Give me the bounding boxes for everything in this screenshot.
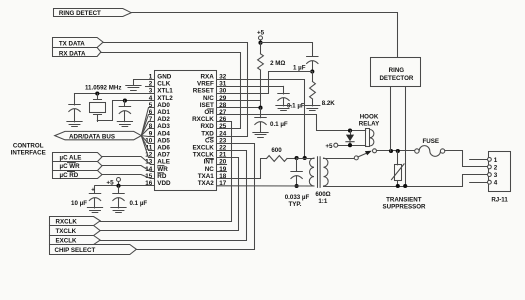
svg-text:VDD: VDD bbox=[157, 180, 171, 187]
svg-text:1: 1 bbox=[494, 157, 498, 164]
svg-text:RXD: RXD bbox=[201, 123, 215, 130]
svg-text:8: 8 bbox=[149, 123, 153, 130]
wire 600 ohm to transformer primary bbox=[287, 158, 297, 160]
svg-text:3: 3 bbox=[494, 172, 498, 179]
wire RX DATA to RXD pin 25 bbox=[101, 53, 241, 129]
svg-text:RJ-11: RJ-11 bbox=[491, 197, 508, 204]
connector J1 RJ-11 bbox=[489, 152, 511, 192]
pin 2 CLK stub bbox=[146, 86, 155, 88]
svg-text:HOOK: HOOK bbox=[360, 113, 379, 120]
svg-text:INT: INT bbox=[204, 159, 214, 166]
wire uC RD to RD pin 15 bbox=[102, 175, 154, 179]
RJ-11 pin 3 contact bbox=[488, 173, 492, 177]
node diode bottom junction bbox=[348, 143, 352, 147]
bus fan wire to AD7 pin 12 bbox=[141, 136, 154, 158]
wire ring detector output left to tip line bbox=[390, 87, 392, 151]
bus fan wire to AD4 pin 9 bbox=[141, 135, 154, 138]
svg-text:TXCLK: TXCLK bbox=[56, 228, 77, 235]
node relay-diode top junction bbox=[348, 129, 352, 133]
resistor 8.2K bbox=[312, 72, 314, 82]
bus fan wire to AD6 pin 11 bbox=[141, 136, 154, 151]
svg-text:0.1 µF: 0.1 µF bbox=[270, 121, 288, 128]
svg-text:AD1: AD1 bbox=[157, 109, 170, 116]
wire secondary top to hook switch bbox=[324, 158, 355, 160]
net tag CHIP SELECT bbox=[50, 245, 137, 255]
svg-text:1:1: 1:1 bbox=[318, 198, 328, 205]
svg-text:VREF: VREF bbox=[197, 81, 214, 88]
capacitor C2 (right crystal cap) bbox=[124, 101, 126, 107]
svg-text:ALE: ALE bbox=[157, 159, 170, 166]
wire secondary bottom (ring line) bbox=[324, 186, 463, 188]
wire uC WR to WR pin 14 bbox=[102, 166, 154, 172]
node suppressor top junction bbox=[396, 149, 400, 153]
wire RING DETECT to ring detector input bbox=[131, 13, 397, 58]
svg-text:INTERFACE: INTERFACE bbox=[11, 149, 46, 156]
bus fan wire to AD1 pin 6 bbox=[141, 115, 154, 136]
svg-text:+: + bbox=[91, 188, 95, 194]
svg-text:µC WR: µC WR bbox=[60, 163, 81, 170]
ground for C1 bbox=[67, 122, 82, 127]
wire TXA2 pin 17 to transformer primary bottom bbox=[217, 185, 314, 187]
pin 29 N/C wire stub bbox=[217, 100, 261, 102]
svg-text:AD6: AD6 bbox=[157, 145, 170, 152]
ground for VREF cap bbox=[276, 106, 291, 111]
svg-text:TXD: TXD bbox=[201, 130, 214, 137]
diode D1 flyback bbox=[350, 131, 352, 135]
capacitor 0.1 uF at VDD bbox=[118, 186, 120, 194]
op RING DETECTOR block U2 bbox=[371, 58, 421, 87]
svg-text:3: 3 bbox=[149, 88, 153, 95]
ground for 10 uF cap bbox=[87, 208, 102, 213]
svg-text:RESET: RESET bbox=[193, 88, 214, 95]
svg-text:DETECTOR: DETECTOR bbox=[379, 75, 413, 82]
wire ISET pin 28 to RC node bbox=[217, 107, 261, 109]
RJ-11 pin 4 stub bbox=[470, 182, 488, 184]
svg-text:NC: NC bbox=[205, 166, 215, 173]
transformer T1 secondary winding bbox=[324, 158, 329, 186]
net tag TXCLK bbox=[50, 226, 101, 236]
wire TXCLK to pin 21 bbox=[100, 158, 238, 231]
svg-text:ADR/DATA BUS: ADR/DATA BUS bbox=[69, 133, 115, 140]
svg-text:4: 4 bbox=[494, 180, 498, 187]
wire RXCLK to pin 26 bbox=[100, 122, 231, 222]
svg-text:2 MΩ: 2 MΩ bbox=[270, 60, 285, 67]
svg-text:RELAY: RELAY bbox=[359, 121, 380, 128]
net tag RXCLK bbox=[50, 217, 101, 226]
net tag RING DETECT bbox=[54, 9, 132, 17]
svg-text:CHIP SELECT: CHIP SELECT bbox=[55, 247, 96, 254]
wire CHIP SELECT to CS pin 23 bbox=[136, 144, 254, 250]
wire crystal bottom to XTL2 pin 4 bbox=[97, 101, 154, 121]
capacitor 0.1 uF at VREF bbox=[283, 86, 285, 94]
pin 19 NC stub bbox=[217, 171, 227, 173]
transformer T1 600 ohm 1:1 primary winding bbox=[309, 158, 314, 186]
svg-text:AD4: AD4 bbox=[157, 130, 170, 137]
svg-text:EXCLK: EXCLK bbox=[192, 145, 214, 152]
transformer T1 core bbox=[318, 157, 321, 188]
RJ-11 pin 4 contact bbox=[488, 180, 492, 184]
node RESET junction bbox=[310, 69, 314, 73]
svg-text:XTL1: XTL1 bbox=[157, 88, 173, 95]
svg-text:WR: WR bbox=[157, 166, 168, 173]
wire VDD rail to pin 16 bbox=[95, 185, 154, 187]
relay K1 hook relay coil bbox=[366, 129, 370, 147]
svg-text:SUPPRESSOR: SUPPRESSOR bbox=[383, 203, 427, 210]
svg-text:TXA1: TXA1 bbox=[198, 173, 215, 180]
wire switch to fuse (tip line) bbox=[377, 150, 415, 152]
net tag ADR/DATA BUS (bidirectional bus) bbox=[55, 131, 142, 139]
svg-text:RD: RD bbox=[157, 173, 167, 180]
svg-text:4: 4 bbox=[149, 95, 153, 102]
svg-text:1 µF: 1 µF bbox=[293, 65, 306, 72]
svg-text:EXCLK: EXCLK bbox=[56, 238, 78, 245]
net tag uC WR bbox=[53, 162, 103, 171]
bus fan wire to AD0 pin 5 bbox=[141, 108, 154, 136]
wire ring detector output right to ring line bbox=[405, 87, 407, 186]
svg-text:8.2K: 8.2K bbox=[322, 100, 336, 107]
wire +5 rail to 1 uF cap bbox=[261, 43, 313, 57]
node 0.033uF top junction bbox=[295, 156, 299, 160]
svg-text:TYP.: TYP. bbox=[289, 201, 302, 208]
svg-text:TX DATA: TX DATA bbox=[59, 40, 85, 47]
RJ-11 pin 1 stub bbox=[470, 159, 488, 161]
node ring detector right junction bbox=[403, 184, 407, 188]
pin 1 GND wire bbox=[134, 80, 155, 86]
capacitor 0.1 uF at ISET bbox=[260, 108, 262, 118]
svg-text:µC RD: µC RD bbox=[60, 172, 79, 179]
svg-text:11.0592 MHz: 11.0592 MHz bbox=[85, 84, 121, 91]
svg-text:AD2: AD2 bbox=[157, 116, 170, 123]
capacitor 1 uF bbox=[307, 57, 318, 64]
wire TX DATA to TXD pin 24 bbox=[103, 43, 247, 137]
node 0.033uF bottom junction bbox=[295, 184, 299, 188]
wire XTL1 pin 3 to crystal network bbox=[75, 93, 155, 95]
svg-text:AD7: AD7 bbox=[157, 152, 170, 159]
svg-text:CLK: CLK bbox=[157, 81, 170, 88]
pin 20 INT stub bbox=[217, 164, 227, 166]
net tag TX DATA bbox=[53, 38, 104, 48]
svg-text:AD0: AD0 bbox=[157, 102, 170, 109]
wire RESET pin 30 to 1uF/8.2K node bbox=[217, 72, 312, 94]
node +5 rail junction bbox=[258, 41, 262, 45]
resistor 2 Mohm bbox=[260, 43, 262, 54]
svg-text:2: 2 bbox=[494, 164, 498, 171]
op IC U1 modem controller bbox=[155, 71, 217, 191]
net tag uC RD bbox=[53, 171, 103, 179]
svg-text:0.1 µF: 0.1 µF bbox=[130, 200, 148, 207]
svg-text:+5: +5 bbox=[325, 143, 333, 150]
svg-text:CONTROL: CONTROL bbox=[13, 142, 44, 149]
svg-text:RXCLK: RXCLK bbox=[192, 116, 214, 123]
capacitor C1 (left crystal cap) bbox=[74, 94, 76, 105]
svg-text:600: 600 bbox=[271, 147, 282, 154]
svg-text:ISET: ISET bbox=[200, 102, 214, 109]
wire ring line to RJ-11 pin 3 bbox=[463, 175, 488, 187]
node RXA-primary junction bbox=[303, 156, 307, 160]
wire TXA1 pin 18 to 600 ohm resistor bbox=[217, 159, 267, 179]
svg-text:7: 7 bbox=[149, 116, 153, 123]
wire OH pin 27 to hook relay bbox=[217, 115, 366, 131]
bus fan wire to AD5 pin 10 bbox=[141, 136, 154, 144]
svg-text:RXCLK: RXCLK bbox=[56, 218, 78, 225]
svg-text:RX DATA: RX DATA bbox=[59, 50, 86, 57]
ground for ISET cap bbox=[253, 133, 268, 138]
node ISET junction bbox=[258, 106, 262, 110]
svg-text:RING DETECT: RING DETECT bbox=[59, 10, 101, 17]
node ring detector left junction bbox=[389, 149, 393, 153]
ground for 0.1 uF cap bbox=[111, 208, 126, 213]
net tag uC ALE bbox=[53, 153, 103, 162]
svg-text:OH: OH bbox=[204, 109, 214, 116]
svg-text:TXCLK: TXCLK bbox=[193, 152, 214, 159]
svg-text:RXA: RXA bbox=[201, 74, 215, 81]
resistor 600 ohm bbox=[267, 156, 288, 162]
transient suppressor RV1 bbox=[397, 151, 399, 165]
svg-text:µC ALE: µC ALE bbox=[60, 154, 82, 161]
wire +5 to relay coil bottom bbox=[338, 145, 366, 147]
node suppressor bottom junction bbox=[396, 184, 400, 188]
net tag EXCLK bbox=[50, 236, 101, 245]
svg-text:AD3: AD3 bbox=[157, 123, 170, 130]
svg-text:TRANSIENT: TRANSIENT bbox=[386, 196, 422, 203]
RJ-11 pin 2 contact bbox=[488, 165, 492, 169]
svg-text:XTL2: XTL2 bbox=[157, 95, 173, 102]
wire fuse to RJ-11 pin 2 (tip) bbox=[445, 151, 488, 167]
bus fan wire to AD2 pin 7 bbox=[141, 122, 154, 136]
RJ-11 pin 1 contact bbox=[488, 158, 492, 162]
ground at pin 1 bbox=[126, 86, 141, 91]
svg-text:GND: GND bbox=[157, 74, 171, 81]
crystal Y1 bbox=[94, 94, 102, 122]
svg-text:RING: RING bbox=[389, 67, 405, 74]
wire EXCLK to pin 22 bbox=[100, 151, 246, 241]
node VDD junction bbox=[116, 184, 120, 188]
ground for 8.2K bbox=[305, 106, 320, 111]
svg-text:25: 25 bbox=[219, 123, 227, 130]
ground for C2 bbox=[117, 122, 132, 127]
svg-text:FUSE: FUSE bbox=[423, 138, 440, 145]
svg-text:CS: CS bbox=[205, 137, 214, 144]
svg-text:26: 26 bbox=[219, 116, 227, 123]
svg-text:+5: +5 bbox=[106, 179, 114, 186]
svg-text:AD5: AD5 bbox=[157, 137, 170, 144]
hook switch contact bbox=[354, 156, 358, 160]
wire uC ALE to ALE pin 13 bbox=[102, 157, 154, 165]
capacitor 0.033 uF bbox=[296, 158, 298, 171]
wire RXA pin 32 to line interface bbox=[217, 80, 305, 159]
net tag RX DATA bbox=[53, 48, 101, 57]
wire VREF pin 31 to cap bbox=[217, 86, 284, 88]
capacitor 10 uF electrolytic bbox=[94, 186, 96, 194]
svg-text:24: 24 bbox=[219, 130, 227, 137]
svg-text:N/C: N/C bbox=[203, 95, 214, 102]
node crystal-XTL1 junction bbox=[95, 91, 99, 95]
node XTL2-C2 junction bbox=[123, 99, 127, 103]
svg-text:10 µF: 10 µF bbox=[71, 200, 87, 207]
svg-text:+5: +5 bbox=[257, 29, 265, 36]
fuse F1 bbox=[415, 149, 419, 153]
bus fan wire to AD3 pin 8 bbox=[141, 129, 154, 136]
svg-text:TXA2: TXA2 bbox=[198, 180, 215, 187]
